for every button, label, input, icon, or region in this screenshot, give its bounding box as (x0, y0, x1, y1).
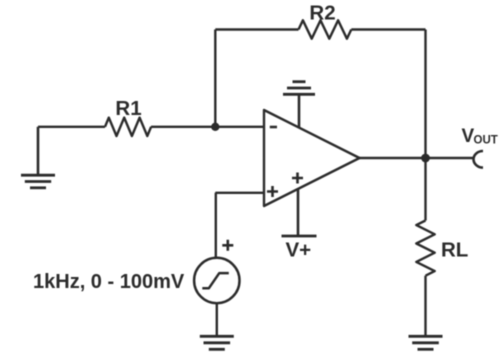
svg-text:V+: V+ (286, 239, 312, 262)
svg-text:OUT: OUT (474, 135, 498, 147)
svg-text:1kHz, 0 - 100mV: 1kHz, 0 - 100mV (33, 271, 185, 293)
svg-text:R1: R1 (115, 97, 141, 120)
svg-text:RL: RL (441, 239, 468, 262)
svg-text:R2: R2 (309, 2, 335, 25)
